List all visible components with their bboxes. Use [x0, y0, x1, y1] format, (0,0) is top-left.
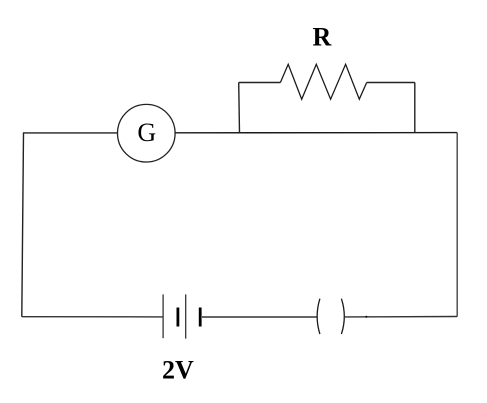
svg-text:G: G [137, 118, 156, 147]
junction dot on bottom wire [365, 316, 367, 318]
svg-text:2V: 2V [162, 356, 194, 385]
wire: top horizontal from galvanometer to top-right corner [175, 132, 457, 134]
wire: bottom-left horizontal to battery [22, 316, 163, 318]
wire: top-left horizontal to galvanometer [23, 132, 118, 134]
galvanometer G [118, 104, 176, 162]
key: right arc [341, 299, 344, 334]
battery: long plate 1 [162, 294, 164, 338]
resistor R zigzag [280, 64, 366, 99]
wire: resistor branch left vertical [238, 83, 241, 133]
wire: resistor branch right vertical [414, 83, 416, 133]
battery: short thick plate 1 [176, 308, 179, 327]
svg-text:R: R [313, 22, 332, 51]
wire: battery to key [202, 316, 317, 318]
wire: right vertical side [456, 133, 458, 317]
wire: left vertical side [22, 133, 24, 317]
battery: short thick plate 2 [199, 308, 202, 327]
wire: key to bottom-right corner [345, 316, 457, 318]
key: left arc [317, 299, 320, 334]
battery: long plate 2 [185, 294, 187, 338]
wire: resistor branch right horizontal [367, 82, 415, 84]
wire: resistor branch left horizontal [239, 82, 281, 84]
